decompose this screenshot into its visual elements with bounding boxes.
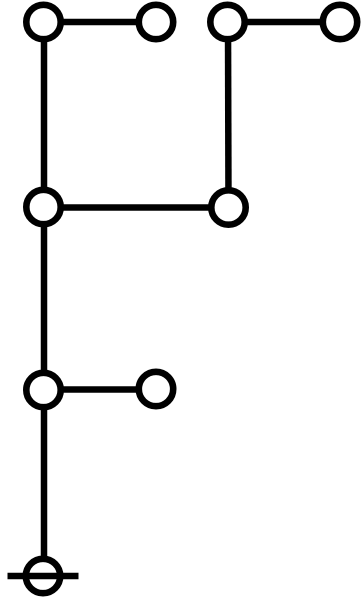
node C	[210, 5, 244, 39]
node G	[26, 373, 60, 407]
wire G-H	[44, 386, 157, 393]
ground bar	[8, 573, 79, 580]
wire A-E	[41, 22, 48, 207]
wire E-G	[41, 207, 48, 390]
node I (ground terminal)	[26, 559, 60, 593]
node D	[323, 5, 357, 39]
node F	[211, 190, 245, 224]
wire C-F	[225, 22, 232, 208]
wire A-B	[44, 19, 157, 26]
wire C-D	[228, 19, 341, 26]
node H	[139, 372, 173, 406]
node B	[139, 5, 173, 39]
wire E-F	[44, 204, 229, 211]
node A	[26, 5, 60, 39]
node E	[26, 190, 60, 224]
wire G-I	[41, 390, 48, 576]
